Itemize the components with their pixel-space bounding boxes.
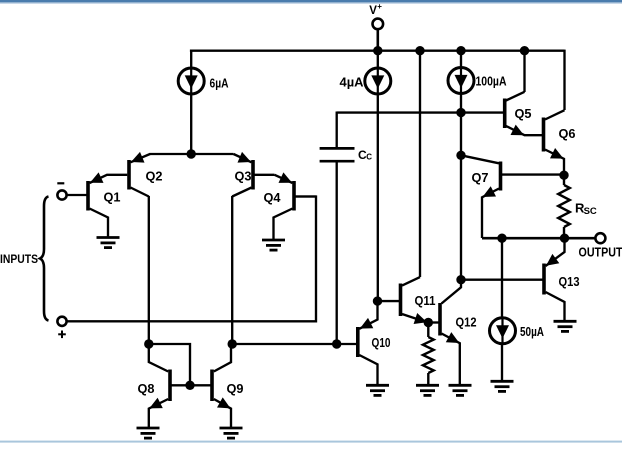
wire minus input to Q1 base	[67, 194, 87, 196]
transistor Q2	[129, 152, 163, 197]
node junction 7	[456, 151, 465, 160]
transistor Q12	[440, 280, 477, 386]
wire 4uA down to Q10/Q11 node	[377, 93, 379, 301]
wire 100uA down to Q12/Q13 node	[460, 93, 462, 280]
svg-text:SC: SC	[584, 206, 597, 217]
svg-text:C: C	[366, 153, 372, 162]
wire Q8 base tie	[149, 344, 190, 385]
resistor Rsc	[558, 175, 597, 238]
wire Q11 emitter to Q12 base	[428, 321, 439, 323]
transistor Q11	[401, 277, 436, 324]
node junction 13	[424, 318, 433, 327]
node junction 2	[415, 46, 424, 55]
svg-text:Q11: Q11	[415, 293, 436, 308]
svg-text:50µA: 50µA	[520, 324, 544, 339]
wire Q2/Q3 emitter rail	[150, 153, 234, 155]
transistor Q5	[505, 92, 542, 135]
terminal plus input	[57, 317, 66, 338]
wire 50uA stem from output	[501, 238, 503, 318]
node junction 14	[144, 339, 153, 348]
wire mirror node to Q10 base	[232, 343, 356, 345]
terminal OUTPUT	[579, 233, 622, 260]
node junction 5	[187, 149, 196, 158]
node junction 8	[456, 275, 465, 284]
svg-text:4µA: 4µA	[340, 75, 365, 90]
svg-text:Q2: Q2	[146, 168, 163, 183]
wire plus input line	[67, 197, 316, 322]
wire Q7 base to Rsc top	[502, 173, 564, 175]
ground Q4 collector	[262, 240, 285, 250]
svg-text:V: V	[369, 5, 377, 17]
wire 100uA stem from rail	[460, 51, 462, 69]
wire V+ stem	[376, 29, 379, 51]
svg-text:Q6: Q6	[559, 126, 576, 141]
node junction 9	[559, 171, 568, 180]
svg-text:+: +	[377, 2, 382, 11]
transistor Q1	[88, 172, 127, 237]
svg-text:Q8: Q8	[138, 381, 155, 396]
wire Cc top to Q5 base	[337, 111, 504, 113]
svg-text:Q13: Q13	[559, 274, 580, 289]
node junction 10	[497, 234, 506, 243]
svg-text:Q7: Q7	[472, 170, 489, 185]
wire Q2 collector down	[148, 196, 150, 344]
wire Q8-Q9 base link	[171, 384, 211, 386]
wire Q11 collector to rail	[419, 51, 421, 277]
wire Q13 base line	[461, 279, 543, 281]
transistor Q4	[264, 172, 317, 240]
capacitor Cc	[320, 148, 373, 162]
wire V+ rail	[190, 50, 565, 52]
svg-text:Q1: Q1	[104, 189, 121, 204]
ground Q12 emitter	[449, 385, 472, 395]
node junction 1	[373, 46, 382, 55]
transistor Q7	[461, 155, 501, 238]
transistor Q6	[544, 110, 576, 175]
current source 6uA	[178, 68, 229, 94]
ground Q9 emitter	[220, 428, 243, 438]
wire 50uA to ground	[501, 344, 503, 382]
svg-text:Q3: Q3	[235, 168, 252, 183]
node junction 4	[520, 46, 529, 55]
transistor Q3	[232, 152, 274, 197]
wire rail right drop to Q6 collector	[563, 50, 565, 110]
node junction 12	[373, 296, 382, 305]
ground Q1 collector	[97, 238, 120, 248]
wire 6uA to Q2/Q3 base node	[190, 94, 192, 155]
wire 6uA stem from rail	[190, 51, 192, 69]
ground Q11 resistor	[416, 385, 439, 395]
node junction 3	[456, 46, 465, 55]
node junction 6	[456, 108, 465, 117]
wire Q5 collector to rail	[523, 51, 525, 92]
transistor Q13	[544, 238, 580, 321]
svg-text:100µA: 100µA	[476, 74, 507, 89]
wire Q10/Q11 base link	[378, 300, 400, 302]
node junction 15	[228, 339, 237, 348]
wire 4uA stem from rail	[377, 51, 379, 69]
node junction 11	[560, 234, 569, 243]
ground 50uA source	[491, 381, 514, 391]
svg-text:OUTPUT: OUTPUT	[579, 246, 622, 260]
svg-text:6µA: 6µA	[210, 76, 229, 91]
svg-text:Q4: Q4	[264, 190, 282, 205]
node junction 17	[185, 381, 194, 390]
current source 100uA	[448, 68, 507, 94]
svg-text:Q10: Q10	[372, 335, 391, 350]
ground Q13 collector	[554, 321, 577, 331]
node V+ terminal	[369, 2, 383, 29]
brace INPUTS	[0, 197, 49, 321]
terminal minus input	[57, 183, 66, 199]
wire output line	[482, 237, 596, 240]
resistor Q11 emitter	[423, 323, 434, 386]
svg-text:Q12: Q12	[456, 314, 477, 329]
transistor Q10	[358, 301, 391, 385]
current source 4uA	[340, 68, 391, 94]
current source 50uA	[490, 318, 545, 344]
wire Q3 collector down	[231, 196, 233, 344]
svg-text:INPUTS: INPUTS	[0, 254, 38, 266]
ground Q8 emitter	[137, 428, 160, 438]
ground Q10 collector	[366, 385, 389, 395]
node junction 16	[332, 339, 341, 348]
transistor Q9	[212, 344, 244, 428]
transistor Q8	[138, 344, 171, 428]
svg-text:Q9: Q9	[227, 381, 244, 396]
wire Cc upper branch	[336, 112, 338, 148]
wire Cc lower branch	[336, 162, 338, 344]
svg-text:Q5: Q5	[515, 106, 532, 121]
